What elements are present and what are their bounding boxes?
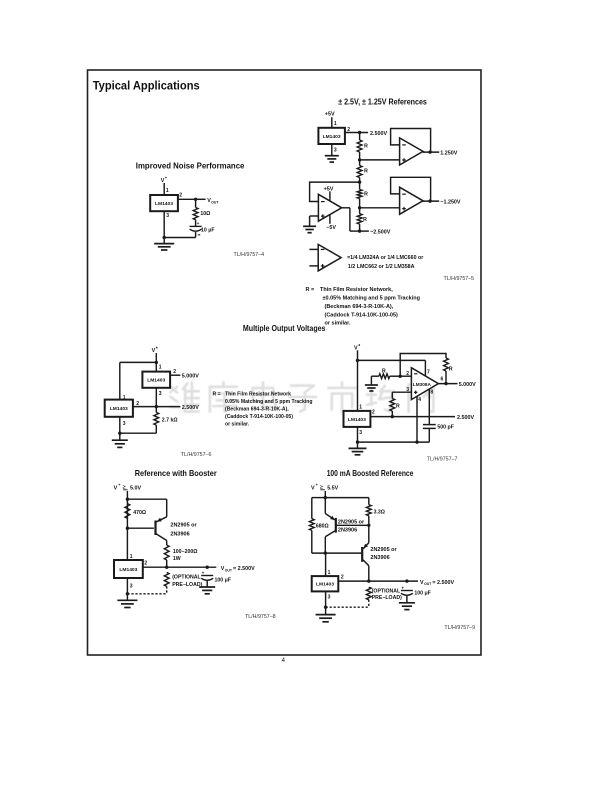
svg-text:1: 1 (328, 570, 331, 576)
svg-text:1: 1 (334, 121, 337, 127)
svg-text:LM308A: LM308A (413, 382, 432, 387)
svg-text:(Caddock T-914-10K-100-05): (Caddock T-914-10K-100-05) (325, 313, 399, 319)
svg-text:LM1403: LM1403 (348, 417, 366, 423)
svg-text:or similar.: or similar. (325, 321, 351, 327)
svg-text:Thin Film Resistor Network: Thin Film Resistor Network (225, 391, 291, 397)
svg-text:TL/H/9757–6: TL/H/9757–6 (181, 452, 212, 458)
svg-text:7: 7 (427, 370, 430, 376)
svg-text:R =: R = (306, 287, 315, 293)
svg-text:2N3906: 2N3906 (370, 555, 389, 561)
svg-text:= 2.500V: = 2.500V (233, 566, 255, 572)
svg-text:100−200Ω: 100−200Ω (173, 549, 198, 555)
svg-text:Improved Noise Performance: Improved Noise Performance (136, 161, 245, 170)
svg-text:1: 1 (359, 404, 362, 410)
svg-text:3.3Ω: 3.3Ω (374, 509, 385, 515)
svg-text:*: * (156, 347, 158, 353)
svg-text:R: R (396, 404, 400, 410)
svg-text:R: R (363, 217, 367, 223)
svg-text:OUT: OUT (424, 582, 432, 586)
svg-text:R: R (449, 366, 453, 372)
svg-text:±0.05% Matching and 5 ppm Trac: ±0.05% Matching and 5 ppm Tracking (323, 296, 420, 302)
svg-text:Thin Film Resistor Network,: Thin Film Resistor Network, (320, 287, 393, 293)
svg-text:Typical Applications: Typical Applications (93, 78, 200, 92)
svg-text:2: 2 (173, 369, 176, 375)
svg-text:TL/H/9757–9: TL/H/9757–9 (444, 625, 475, 631)
svg-text:1W: 1W (173, 556, 181, 562)
svg-text:3: 3 (166, 213, 169, 219)
svg-text:1.250V: 1.250V (440, 150, 457, 156)
svg-text:3: 3 (328, 594, 331, 600)
svg-text:LM1403: LM1403 (155, 201, 173, 207)
svg-text:LM1403: LM1403 (110, 406, 128, 412)
svg-text:TL/H/9757–5: TL/H/9757–5 (444, 276, 475, 282)
svg-text:LM1403: LM1403 (147, 378, 165, 384)
svg-text:V: V (114, 485, 118, 491)
svg-text:2.500V: 2.500V (182, 405, 199, 411)
svg-text:R: R (382, 368, 386, 374)
svg-text:(Beckman 694-3-R-10K-A),: (Beckman 694-3-R-10K-A), (225, 407, 289, 413)
svg-text:R: R (364, 144, 368, 150)
svg-text:2N2905 or: 2N2905 or (370, 547, 397, 553)
svg-text:2: 2 (144, 561, 147, 567)
svg-text:−2.500V: −2.500V (370, 229, 391, 235)
svg-text:+5V: +5V (324, 186, 334, 192)
svg-text:−1.250V: −1.250V (440, 199, 461, 205)
svg-text:LM1403: LM1403 (119, 567, 137, 573)
svg-text:1: 1 (130, 554, 133, 560)
svg-text:LM1403: LM1403 (323, 134, 341, 140)
svg-text:TL/H/9757–4: TL/H/9757–4 (234, 252, 265, 258)
svg-text:PRE−LOAD): PRE−LOAD) (172, 582, 202, 588)
svg-text:TL/H/9757–7: TL/H/9757–7 (427, 457, 458, 463)
svg-text:500 pF: 500 pF (437, 425, 453, 431)
svg-text:+5V: +5V (325, 112, 335, 118)
svg-text:3: 3 (406, 387, 409, 393)
svg-text:2N2905 or: 2N2905 or (170, 522, 197, 528)
svg-text:0.05% Matching and 5 ppm Track: 0.05% Matching and 5 ppm Tracking (225, 399, 312, 405)
svg-text:5.0V: 5.0V (130, 485, 141, 491)
svg-text:2N3906: 2N3906 (170, 532, 189, 538)
svg-text:= 2.500V: = 2.500V (432, 580, 454, 586)
svg-text:3: 3 (334, 147, 337, 153)
svg-text:(Beckman 694-3-R-10K-A),: (Beckman 694-3-R-10K-A), (325, 304, 394, 310)
svg-text:8: 8 (430, 389, 433, 395)
svg-text:+: + (202, 570, 205, 575)
svg-text:R: R (364, 169, 368, 175)
svg-text:3: 3 (130, 584, 133, 590)
svg-text:4: 4 (418, 397, 421, 403)
svg-text:100 μF: 100 μF (414, 590, 430, 596)
svg-text:3: 3 (123, 421, 126, 427)
svg-text:5.5V: 5.5V (327, 485, 338, 491)
svg-text:or similar.: or similar. (225, 422, 250, 428)
svg-text:2: 2 (406, 371, 409, 377)
svg-text:3: 3 (359, 430, 362, 436)
svg-text:OUT: OUT (225, 568, 233, 572)
svg-text:(OPTIONAL: (OPTIONAL (372, 588, 401, 594)
svg-text:5.000V: 5.000V (182, 374, 199, 380)
svg-text:2: 2 (341, 575, 344, 581)
svg-text:2.500V: 2.500V (457, 415, 474, 421)
svg-text:10Ω: 10Ω (200, 211, 210, 217)
svg-text:PRE−LOAD): PRE−LOAD) (372, 595, 402, 601)
svg-text:2.500V: 2.500V (370, 131, 387, 137)
svg-text:Multiple Output Voltages: Multiple Output Voltages (243, 324, 326, 333)
svg-text:+: + (197, 221, 200, 226)
svg-text:470Ω: 470Ω (133, 510, 146, 516)
svg-text:(OPTIONAL: (OPTIONAL (172, 575, 201, 581)
svg-text:V: V (311, 485, 315, 491)
svg-text:1: 1 (166, 188, 169, 194)
svg-text:−5V: −5V (326, 225, 336, 231)
svg-text:2.7 kΩ: 2.7 kΩ (162, 417, 178, 423)
svg-text:2N2905 or: 2N2905 or (338, 520, 365, 526)
svg-text:OUT: OUT (211, 200, 219, 204)
svg-text:1/2 LMC662 or 1/2 LM358A: 1/2 LMC662 or 1/2 LM358A (348, 264, 415, 270)
svg-text:100 μF: 100 μF (215, 577, 231, 583)
svg-text:R =: R = (213, 391, 221, 397)
svg-text:*: * (358, 344, 360, 350)
svg-text:=1/4 LM324A or 1/4 LMC660 or: =1/4 LM324A or 1/4 LMC660 or (347, 255, 423, 261)
svg-text:2N3906: 2N3906 (338, 528, 357, 534)
svg-text:6: 6 (441, 376, 444, 382)
svg-text:680Ω: 680Ω (316, 524, 329, 530)
svg-text:TL/H/9757–8: TL/H/9757–8 (245, 614, 276, 620)
svg-text:Reference with Booster: Reference with Booster (135, 469, 218, 478)
svg-text:10 μF: 10 μF (201, 228, 215, 234)
svg-text:5.000V: 5.000V (459, 382, 476, 388)
svg-text:2: 2 (179, 193, 182, 199)
svg-text:3: 3 (159, 391, 162, 397)
svg-text:2: 2 (372, 410, 375, 416)
svg-text:1: 1 (159, 365, 162, 371)
svg-text:LM1403: LM1403 (316, 582, 334, 588)
svg-text:(Caddock T-914-10K-100-05): (Caddock T-914-10K-100-05) (225, 414, 293, 420)
svg-text:R: R (364, 192, 368, 198)
svg-text:± 2.5V, ± 1.25V References: ± 2.5V, ± 1.25V References (338, 97, 427, 106)
svg-text:+: + (402, 585, 405, 590)
svg-text:100 mA Boosted Reference: 100 mA Boosted Reference (327, 469, 414, 478)
